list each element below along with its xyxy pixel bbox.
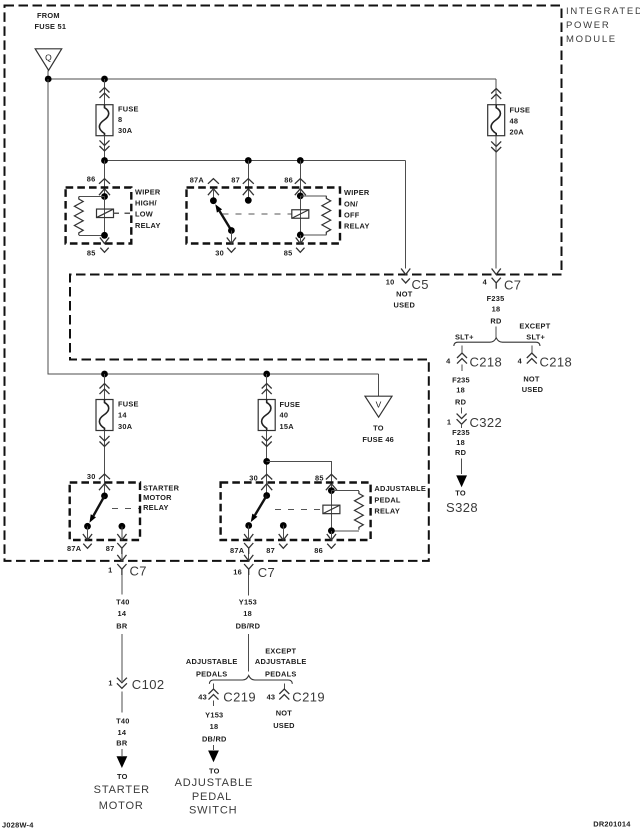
svg-text:86: 86 — [284, 175, 293, 184]
node bus2 at fuse 8 output — [101, 157, 108, 164]
wire coil vertical adjustable pedal — [330, 491, 332, 531]
label NOT USED at C5 — [394, 289, 416, 309]
wire bus2 to pin 86 wiper on/off — [299, 161, 301, 196]
label TO STARTER MOTOR — [94, 772, 150, 812]
svg-text:C7: C7 — [130, 564, 147, 579]
svg-text:16: 16 — [233, 568, 242, 577]
wire pin 86 stub adjustable pedal — [330, 531, 332, 540]
svg-text:C219: C219 — [223, 690, 256, 705]
pin 30 connector marks adjustable pedal — [261, 474, 272, 479]
connector chevrons below fuse 48 — [491, 141, 501, 152]
svg-text:14: 14 — [118, 728, 127, 737]
wire brace left drop pedals — [213, 684, 215, 690]
pin 85 exit wiper high/low — [100, 238, 109, 244]
connector C7 pin 4 — [483, 277, 522, 292]
pin 87 exit starter relay — [117, 534, 126, 540]
connector chevrons above fuse 8 — [100, 88, 110, 99]
node wiper on/off coil top — [297, 193, 304, 200]
wire coil vertical — [104, 197, 106, 236]
svg-text:PEDALS: PEDALS — [196, 669, 227, 678]
resistor wiper on/off — [322, 196, 331, 235]
wire to brace — [495, 327, 497, 338]
svg-text:C5: C5 — [412, 277, 429, 292]
node starter relay pin 30 — [101, 493, 108, 500]
svg-text:87A: 87A — [190, 175, 205, 184]
svg-text:LOW: LOW — [135, 210, 153, 219]
svg-text:Y153: Y153 — [239, 598, 257, 607]
wire pin 87A to IPM edge — [248, 554, 250, 561]
svg-text:86: 86 — [314, 546, 323, 555]
label FUSE 8 30A — [118, 105, 139, 135]
svg-text:C218: C218 — [470, 355, 503, 370]
svg-text:40: 40 — [280, 411, 289, 420]
node starter relay pin 87A — [84, 523, 91, 530]
svg-text:Y153: Y153 — [205, 711, 223, 720]
svg-text:PEDAL: PEDAL — [374, 495, 401, 504]
svg-text:4: 4 — [483, 278, 488, 287]
svg-text:FUSE: FUSE — [118, 105, 139, 114]
connector C219 pin 43 right — [267, 689, 325, 705]
pin 86 exit adjustable pedal — [327, 534, 336, 540]
coil wiper on/off relay — [292, 210, 309, 219]
svg-text:4: 4 — [446, 356, 451, 365]
pin 86 connector marks wiper on/off — [295, 179, 306, 184]
node adjustable pedal pin 30 — [263, 492, 270, 499]
connector C219 pin 43 left — [198, 689, 256, 706]
svg-text:RELAY: RELAY — [135, 221, 161, 230]
svg-text:86: 86 — [87, 174, 96, 183]
wire pin 30 stub — [230, 231, 232, 244]
svg-text:T40: T40 — [116, 598, 130, 607]
flow arrow to adjustable pedal switch — [208, 751, 219, 763]
pin 87A connector marks wiper on/off — [208, 179, 219, 184]
label EXCEPT ADJUSTABLE PEDALS — [255, 647, 307, 679]
wire label Y153 18 DB/RD — [236, 598, 261, 631]
svg-text:SWITCH: SWITCH — [189, 804, 237, 816]
svg-text:FUSE 51: FUSE 51 — [35, 22, 67, 31]
wire pin 87A stub — [212, 188, 214, 201]
pin 30 connector marks starter relay — [99, 474, 110, 479]
node bus2 wiper on/off pin 86 — [297, 157, 304, 164]
svg-text:C322: C322 — [470, 415, 503, 430]
svg-text:DR201014: DR201014 — [593, 819, 631, 828]
svg-text:TO: TO — [117, 772, 128, 781]
wire bus3 to fuse 40 — [266, 374, 268, 400]
svg-text:USED: USED — [273, 721, 295, 730]
wire fuse 8 to bus2 — [104, 136, 106, 161]
pin 87 connector marks — [243, 179, 254, 184]
wire C7-1 down — [121, 575, 123, 594]
svg-text:MODULE: MODULE — [566, 34, 617, 45]
node branch to pin 85 — [263, 458, 270, 465]
wire pin 87 to IPM edge — [121, 554, 123, 561]
exit arrow at IPM edge pin 87 — [117, 555, 126, 561]
brace split pedals — [209, 676, 292, 684]
wire fuse 40 to adjustable pedal relay — [266, 431, 268, 496]
svg-text:HIGH/: HIGH/ — [135, 199, 157, 208]
svg-text:F235: F235 — [452, 376, 470, 385]
svg-text:F235: F235 — [487, 294, 505, 303]
mechanical link wiper on/off — [223, 213, 292, 215]
wire to adjustable pedal switch arrow — [213, 745, 215, 750]
svg-text:1: 1 — [108, 679, 112, 688]
fuse F14 — [96, 400, 113, 431]
svg-text:BR: BR — [116, 621, 128, 630]
label ADJUSTABLE PEDAL RELAY — [374, 484, 426, 515]
wire label F235 18 RD below C322 — [452, 428, 470, 457]
mechanical link adjustable pedal relay — [275, 508, 322, 510]
node wiper on/off pin 87A contact — [210, 197, 217, 204]
svg-text:ON/: ON/ — [344, 199, 358, 208]
node adjustable pedal pin 87 — [280, 522, 287, 529]
wire label T40 14 BR lower — [116, 717, 130, 748]
svg-text:1: 1 — [447, 417, 451, 426]
wire C7-16 down — [248, 575, 250, 596]
wiper on/off relay box — [187, 188, 341, 244]
connector chevrons above fuse 14 — [100, 384, 110, 395]
wire brace right drop pedals — [283, 684, 285, 690]
pin 87A exit starter relay — [83, 534, 92, 540]
svg-text:43: 43 — [198, 693, 207, 702]
svg-text:DB/RD: DB/RD — [236, 621, 261, 630]
svg-text:MOTOR: MOTOR — [99, 800, 144, 812]
switch arm adjustable pedal relay — [251, 496, 267, 523]
wire bus2 to wiper high/low pin 86 — [104, 161, 106, 197]
C7 exit arrow — [492, 269, 501, 275]
svg-text:C7: C7 — [504, 277, 521, 292]
svg-text:10: 10 — [386, 277, 395, 286]
fuse F8 — [96, 105, 113, 136]
wire label Y153 18 DB/RD below C219 — [202, 711, 227, 744]
svg-text:T40: T40 — [116, 717, 130, 726]
connector C5 — [386, 277, 429, 292]
svg-text:USED: USED — [394, 301, 416, 310]
label TO ADJUSTABLE PEDAL SWITCH — [175, 766, 254, 816]
svg-text:18: 18 — [210, 722, 219, 731]
node starter relay pin 87 — [119, 523, 126, 530]
svg-text:C7: C7 — [258, 565, 275, 580]
wire bus2 down to C5 — [405, 161, 407, 269]
wire fuse 48 to C7 — [495, 136, 497, 269]
connector chevrons below fuse 40 — [262, 436, 272, 447]
label FUSE 48 20A — [510, 106, 531, 137]
node bus2 wiper on/off pin 87 — [245, 157, 252, 164]
svg-text:20A: 20A — [510, 128, 525, 137]
connector C218 pin 4 right — [518, 353, 573, 370]
wire below C102 — [121, 692, 123, 713]
label FUSE 40 15A — [280, 400, 301, 431]
connector chevrons above fuse 40 — [262, 384, 272, 395]
wire to starter motor arrow — [121, 749, 123, 756]
mechanical link wiper high/low — [114, 212, 131, 214]
label WIPER ON/OFF RELAY — [344, 188, 370, 230]
exit arrow at IPM edge pin 87A — [244, 555, 253, 561]
svg-text:BR: BR — [116, 738, 128, 747]
fuse F40 — [258, 400, 275, 431]
svg-text:ADJUSTABLE: ADJUSTABLE — [255, 657, 307, 666]
node wiper high/low coil bottom — [101, 232, 108, 239]
flow arrow to starter motor — [117, 756, 128, 768]
svg-text:NOT: NOT — [396, 289, 413, 298]
connector chevrons below fuse 14 — [100, 436, 110, 447]
wire bus1 horizontal — [48, 78, 496, 80]
pin 30 exit wiper on/off — [227, 238, 236, 244]
pin 87A exit adjustable pedal — [244, 534, 253, 540]
C5 exit arrow — [401, 269, 410, 275]
svg-text:18: 18 — [243, 609, 252, 618]
svg-text:INTEGRATED: INTEGRATED — [566, 6, 640, 17]
wire to C102 — [121, 634, 123, 681]
svg-text:18: 18 — [456, 438, 465, 447]
svg-text:SLT+: SLT+ — [455, 332, 474, 341]
svg-text:85: 85 — [87, 248, 96, 257]
wire pin 87A adjustable pedal — [248, 526, 250, 541]
wire bus2 horizontal — [105, 160, 406, 162]
wire pin 87 starter relay to C7 — [121, 526, 123, 540]
flow arrow to S328 — [456, 475, 467, 487]
wire resistor loop top adjustable pedal — [331, 490, 359, 492]
svg-text:RELAY: RELAY — [344, 221, 370, 230]
svg-text:DB/RD: DB/RD — [202, 734, 227, 743]
wire fuse 48 drop from bus1 — [495, 79, 497, 105]
label FUSE 14 30A — [118, 400, 139, 431]
connector chevrons above fuse 48 — [491, 89, 501, 100]
svg-text:85: 85 — [315, 473, 324, 482]
connector C7 pin 16 — [233, 564, 275, 580]
mechanical link starter relay — [112, 507, 139, 509]
brace split SLT+ — [454, 338, 540, 346]
integrated power module dashed outline — [5, 6, 562, 561]
svg-text:C102: C102 — [132, 677, 165, 692]
svg-text:87A: 87A — [67, 544, 82, 553]
wire resistor loop top wiper on/off — [300, 195, 326, 197]
coil wiper high/low relay — [97, 209, 114, 218]
wire fuse 14 to starter relay — [104, 431, 106, 496]
svg-text:ADJUSTABLE: ADJUSTABLE — [374, 484, 426, 493]
svg-text:WIPER: WIPER — [344, 188, 370, 197]
svg-text:TO: TO — [209, 766, 220, 775]
label FROM FUSE 51 — [35, 11, 67, 31]
wire pin 87A stub starter — [87, 526, 89, 540]
wire resistor loop bottom adjustable pedal — [331, 530, 359, 532]
svg-text:J028W-4: J028W-4 — [2, 820, 34, 829]
pin 86 connector marks — [99, 179, 110, 184]
svg-text:4: 4 — [518, 356, 523, 365]
node bus1 fuse 8 branch — [101, 76, 108, 83]
svg-text:ADJUSTABLE: ADJUSTABLE — [175, 777, 254, 789]
svg-text:FUSE: FUSE — [510, 106, 531, 115]
svg-text:30: 30 — [215, 248, 224, 257]
svg-text:EXCEPT: EXCEPT — [519, 322, 550, 331]
node bus3 fuse 14 branch — [101, 371, 108, 378]
label TO S328 — [446, 489, 478, 515]
svg-text:STARTER: STARTER — [143, 484, 180, 493]
node at Q and bus1 — [45, 76, 52, 83]
wire bus1 to fuse 8 — [104, 79, 106, 105]
svg-text:RELAY: RELAY — [143, 503, 169, 512]
node wiper on/off pin 87 contact — [245, 197, 252, 204]
svg-text:RD: RD — [455, 398, 467, 407]
pin 85 exit wiper on/off — [296, 238, 305, 244]
svg-text:87: 87 — [266, 546, 275, 555]
svg-text:WIPER: WIPER — [135, 187, 161, 196]
node wiper high/low coil top — [101, 193, 108, 200]
wire bus2 to pin 87 wiper on/off — [247, 161, 249, 201]
connector C102 pin 1 — [108, 677, 164, 692]
label NOT USED at right C218 — [522, 374, 544, 394]
svg-text:15A: 15A — [280, 422, 295, 431]
node wiper on/off coil bottom — [297, 232, 304, 239]
node bus3 fuse 40 branch — [263, 371, 270, 378]
svg-text:F235: F235 — [452, 428, 470, 437]
wire resistor loop top — [79, 196, 105, 198]
wire to pedal brace — [248, 634, 250, 672]
label TO FUSE 46 — [362, 424, 394, 444]
resistor wiper high/low — [74, 197, 83, 236]
wire resistor loop bottom — [79, 234, 105, 236]
connector C7 pin 1 — [108, 564, 147, 579]
wire label F235 18 RD below C218 — [452, 376, 470, 407]
svg-text:48: 48 — [510, 116, 519, 125]
svg-text:ADJUSTABLE: ADJUSTABLE — [186, 657, 238, 666]
wiper high/low relay box — [66, 188, 132, 244]
svg-text:FROM: FROM — [37, 11, 60, 20]
svg-text:FUSE: FUSE — [118, 400, 139, 409]
svg-text:FUSE 46: FUSE 46 — [362, 435, 394, 444]
off-page connector V to fuse 46 — [365, 374, 392, 417]
svg-text:TO: TO — [455, 489, 466, 498]
svg-text:43: 43 — [267, 693, 276, 702]
label EXCEPT SLT+ right — [519, 322, 550, 342]
adjustable pedal relay box — [221, 483, 371, 541]
svg-text:EXCEPT: EXCEPT — [265, 647, 296, 656]
pin 85 connector marks adjustable pedal — [326, 474, 337, 479]
label NOT USED at right C219 — [273, 709, 295, 730]
wire brace left drop — [461, 346, 463, 353]
svg-text:USED: USED — [522, 385, 544, 394]
off-page connector Q from fuse 51 — [35, 49, 62, 71]
wire pin 87 stub adjustable pedal — [282, 526, 284, 541]
node adjustable pedal pin 87A — [245, 522, 252, 529]
svg-text:NOT: NOT — [276, 709, 293, 718]
resistor adjustable pedal — [355, 491, 364, 530]
svg-text:1: 1 — [108, 566, 112, 575]
svg-text:87: 87 — [106, 544, 115, 553]
node wiper on/off pin 30 — [228, 227, 235, 234]
fuse F48 — [488, 105, 505, 136]
svg-text:MOTOR: MOTOR — [143, 493, 172, 502]
svg-text:87: 87 — [231, 175, 240, 184]
wire coil vertical wiper on/off — [299, 196, 301, 235]
svg-text:30A: 30A — [118, 126, 133, 135]
svg-text:TO: TO — [373, 424, 384, 433]
svg-text:POWER: POWER — [566, 20, 610, 31]
svg-text:RD: RD — [490, 316, 502, 325]
svg-text:8: 8 — [118, 115, 122, 124]
wire pin 85 stub wiper on/off — [299, 235, 301, 244]
svg-text:85: 85 — [284, 248, 293, 257]
wire from Q triangle to bus1 — [47, 70, 49, 79]
wire to S328 arrow — [461, 459, 463, 475]
label STARTER MOTOR RELAY — [143, 484, 180, 512]
wire branch to pin 85 adjustable pedal — [267, 461, 332, 490]
svg-text:C218: C218 — [540, 355, 573, 370]
svg-text:30A: 30A — [118, 422, 133, 431]
wire left column from bus1 to bus3 — [48, 79, 378, 374]
connector C218 pin 4 left — [446, 353, 502, 371]
starter motor relay box — [70, 483, 140, 541]
node adjustable pedal coil top — [328, 487, 335, 494]
svg-text:30: 30 — [249, 473, 258, 482]
svg-text:SLT+: SLT+ — [526, 332, 545, 341]
svg-text:PEDAL: PEDAL — [192, 791, 232, 803]
switch arm starter relay — [89, 496, 104, 523]
wire brace right drop — [531, 346, 533, 353]
svg-text:RELAY: RELAY — [374, 507, 400, 516]
svg-text:87A: 87A — [230, 546, 245, 555]
svg-text:PEDALS: PEDALS — [265, 669, 296, 678]
label INTEGRATED POWER MODULE — [566, 6, 640, 45]
svg-text:FUSE: FUSE — [280, 400, 301, 409]
svg-text:14: 14 — [118, 609, 127, 618]
connector C322 pin 1 — [447, 408, 502, 431]
svg-text:NOT: NOT — [523, 374, 540, 383]
node adjustable pedal coil bottom — [328, 527, 335, 534]
connector chevrons below fuse 8 — [100, 140, 110, 151]
svg-text:18: 18 — [456, 386, 465, 395]
label ADJUSTABLE PEDALS — [186, 657, 238, 678]
svg-text:Q: Q — [45, 53, 52, 63]
switch arm wiper on/off relay — [215, 204, 231, 230]
svg-text:RD: RD — [455, 448, 467, 457]
svg-text:STARTER: STARTER — [94, 784, 150, 796]
wire bus3 to fuse 14 — [104, 374, 106, 400]
svg-text:14: 14 — [118, 411, 127, 420]
svg-text:OFF: OFF — [344, 211, 360, 220]
wire resistor loop bottom wiper on/off — [300, 234, 326, 236]
pin 87 exit adjustable pedal — [279, 534, 288, 540]
svg-text:V: V — [376, 400, 382, 410]
svg-text:30: 30 — [87, 472, 96, 481]
svg-text:C219: C219 — [292, 690, 325, 705]
svg-text:S328: S328 — [446, 500, 478, 515]
svg-text:18: 18 — [492, 304, 501, 313]
wire label F235 18 RD — [487, 294, 505, 326]
wire label T40 14 BR — [116, 598, 130, 631]
label WIPER HIGH/LOW RELAY — [135, 187, 161, 230]
coil adjustable pedal relay — [323, 505, 340, 514]
